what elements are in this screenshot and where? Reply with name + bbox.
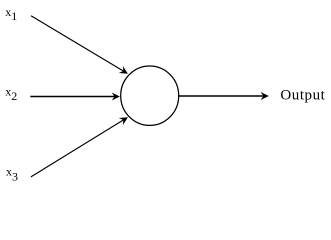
svg-text:x1: x1 bbox=[5, 5, 17, 23]
svg-text:Output: Output bbox=[280, 88, 325, 104]
svg-text:x2: x2 bbox=[5, 85, 17, 103]
svg-text:x3: x3 bbox=[6, 164, 18, 183]
